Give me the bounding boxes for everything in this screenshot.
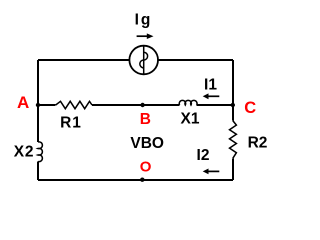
svg-text:X2: X2 xyxy=(14,144,35,161)
svg-text:R1: R1 xyxy=(60,114,82,131)
svg-text:VBO: VBO xyxy=(130,135,164,152)
svg-text:B: B xyxy=(140,111,151,128)
svg-text:X1: X1 xyxy=(181,110,200,127)
svg-text:R2: R2 xyxy=(248,135,268,152)
svg-text:O: O xyxy=(140,159,152,176)
svg-text:Ig: Ig xyxy=(135,12,153,29)
svg-text:I2: I2 xyxy=(197,147,210,164)
svg-text:A: A xyxy=(17,93,29,112)
svg-text:I1: I1 xyxy=(204,76,217,93)
svg-text:C: C xyxy=(244,99,256,117)
